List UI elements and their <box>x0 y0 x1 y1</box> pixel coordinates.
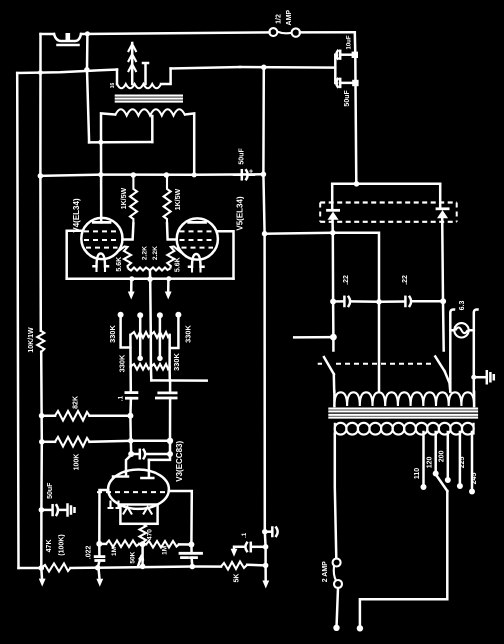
rectifier box (dashed) <box>320 201 457 203</box>
svg-text:200: 200 <box>438 450 445 462</box>
wire: network left side vertical <box>129 335 132 367</box>
svg-text:5.6K: 5.6K <box>116 257 123 272</box>
node: V5 anode crossing <box>192 172 197 177</box>
T1 secondary output arrow (to speaker line) <box>131 43 134 84</box>
capacitor C2 plate straight <box>339 79 342 87</box>
svg-text:50uF: 50uF <box>344 90 351 107</box>
wire: row2 right end down to jog <box>168 367 171 381</box>
capacitor C1 10uF (reservoir) lead right <box>342 53 355 56</box>
tube V5 EL34 envelope <box>177 218 218 259</box>
wire: C8 to bottom bus <box>98 561 100 568</box>
node: rail bottom junction <box>39 565 45 571</box>
capacitor C1 plate curved <box>336 51 338 59</box>
resistor R3 5.6K (V4 cathode) zigzag <box>117 247 132 269</box>
V3 cathode chevron right <box>143 507 152 515</box>
svg-text:50uF: 50uF <box>239 148 246 165</box>
arrow: rail continues down (off-page) <box>40 568 43 579</box>
capacitor C5 .1 (right coupling) plates <box>159 391 176 394</box>
V3 cathode chevron left <box>123 507 132 515</box>
T2 tap lead 120 <box>434 432 437 471</box>
resistor R9 330K (row2 left) <box>131 364 151 370</box>
wire: D2 down to HV switch 2 <box>442 218 444 350</box>
V3 internal shield (dashed) <box>97 491 168 493</box>
svg-text:10uF: 10uF <box>346 35 352 49</box>
stub: row1 hanging dot left <box>139 335 142 356</box>
speaker LS1 coil tab <box>66 33 71 41</box>
T2 tap lead 245 (right end) <box>471 432 474 489</box>
node: B+ junctions <box>262 231 268 237</box>
svg-text:1M: 1M <box>111 547 118 556</box>
node: screen rail to B+ vertical <box>261 172 267 178</box>
resistor R17 1M zigzag <box>143 543 146 546</box>
svg-text:50K: 50K <box>129 551 136 563</box>
node: 1K screen resistor right junction <box>164 172 170 178</box>
node: heater ground junction <box>471 375 476 380</box>
wire: CT link horizontal to OPT center tap <box>89 141 152 144</box>
wire: OPT right rail from top wire down to CT link <box>87 34 89 143</box>
node: top rail / right OPT rail junction <box>85 31 90 36</box>
V3 heater pins <box>108 501 122 509</box>
wire: stub at switch level <box>294 336 333 339</box>
node: left 1M junction <box>96 541 102 547</box>
node: rail junction at 50uF bypass <box>39 507 45 513</box>
V5 grid rows (dashed) <box>180 230 216 232</box>
svg-text:16: 16 <box>110 83 116 89</box>
wire: R2 to V5 screen grid <box>167 223 177 239</box>
arrow: bus feedback stub down (off-page) <box>99 568 100 579</box>
V3 right grid bar and stem <box>141 460 153 478</box>
node: rail start dot <box>38 173 44 179</box>
V5 anode plate bar <box>189 221 206 224</box>
speaker LS1 magnet bar <box>58 44 79 47</box>
wire: V5 grid out right and down <box>218 231 233 278</box>
wire: fuse to top-right corner <box>300 31 355 34</box>
T1 output arrow chevrons <box>128 44 136 72</box>
svg-text:100K: 100K <box>74 454 81 471</box>
T2 tap lead 200 <box>447 432 450 477</box>
capacitor C9 (plate to bus) plates <box>180 552 202 555</box>
wire: left rail below R11 <box>40 352 43 568</box>
T1 primary right lead to V5 anode line <box>185 113 194 174</box>
capacitor C4 .1 (left coupling) plates <box>126 391 137 394</box>
svg-text:.22: .22 <box>402 275 409 285</box>
wire: feedback line from outer rail to OPT secondary left <box>17 70 117 74</box>
svg-text:+: + <box>249 169 253 176</box>
wire: screen supply rail (B+) across amp <box>40 174 263 176</box>
wire: V4 grid out left and down <box>67 231 82 279</box>
T1 core laminations <box>115 96 183 102</box>
node: V3 right grid junction <box>167 451 173 457</box>
wire: selector down and across to mains terminal <box>360 491 447 626</box>
svg-text:47K: 47K <box>46 539 53 552</box>
wire: R1 to V4 screen grid <box>122 223 133 239</box>
wire: bottom bus <box>98 567 222 568</box>
svg-text:1M: 1M <box>161 546 168 555</box>
svg-text:1K/5W: 1K/5W <box>175 189 182 211</box>
T1 primary winding arcs <box>115 109 185 115</box>
T1 secondary tap stub <box>143 63 148 84</box>
resistor R1 1K/5W (V4 screen) zigzag <box>130 176 137 223</box>
node: 1K screen resistor left junction <box>131 172 137 178</box>
fuse F1 terminal circle right <box>292 28 300 36</box>
svg-text:330K: 330K <box>172 353 181 371</box>
wire: jog down to coupling cap C5 <box>169 381 172 393</box>
wire: secondary right lead to screen-feed rail <box>171 67 240 69</box>
capacitor C10 stub on B+ <box>265 530 271 533</box>
resistor R4 5.6K (V5 cathode) zigzag <box>167 247 182 269</box>
switch S1a blade (HT) <box>324 357 334 374</box>
svg-text:10K/1W: 10K/1W <box>28 327 35 353</box>
svg-text:(100K): (100K) <box>58 534 65 555</box>
resistor R16 1M zigzag <box>99 543 106 546</box>
V5 heater legs <box>192 267 201 273</box>
svg-text:V5(EL34): V5(EL34) <box>236 196 245 231</box>
resistor R2 1K/5W (V5 screen) zigzag <box>164 176 171 223</box>
capacitor C2 plate curved <box>336 79 338 87</box>
wire: jog horizontal with stub end <box>151 379 206 382</box>
wire: D1 down to HV switch <box>331 220 334 351</box>
svg-text:225: 225 <box>459 456 466 468</box>
resistor R5 2.2K (left bias) small zigzag <box>128 268 150 271</box>
node: splitter output terminal dots <box>118 312 124 318</box>
wire: row2 left down to coupling cap C4 <box>129 367 132 392</box>
node: V4 anode crossing <box>98 172 103 177</box>
svg-text:120: 120 <box>426 456 433 468</box>
arrow: B+ line end (off-page) <box>262 581 269 589</box>
wire: C5 down to V3 right grid junctions <box>169 398 172 454</box>
T2 secondary end leads <box>334 392 474 407</box>
svg-text:330K: 330K <box>117 354 126 372</box>
capacitor C2 50uF (filter) lead right <box>342 82 356 85</box>
svg-text:.1: .1 <box>242 532 248 538</box>
pilot lamp LP1 <box>454 323 468 337</box>
wire: HT to rectifier bus <box>332 183 440 186</box>
capacitor C8 .022 plates <box>95 555 104 558</box>
fuse F1 terminal circle left <box>269 28 277 36</box>
node: 100K end junction <box>167 438 173 444</box>
wire: outer rail bottom corner to 47K <box>19 567 42 570</box>
node: bus junctions <box>95 565 101 571</box>
node: right 1M junction <box>188 542 194 548</box>
diode D2 (metal rectifier right) <box>437 207 448 210</box>
V3 left grid bar and stem <box>113 455 131 477</box>
node: CT junction on .22 rail <box>376 299 382 305</box>
svg-text:2 AMP: 2 AMP <box>322 561 329 582</box>
wire: RF cap rail left segment <box>333 300 342 303</box>
resistor R11 10K/1W (in left rail) zigzag <box>37 331 44 352</box>
fuse F1 link <box>277 32 292 34</box>
svg-text:110: 110 <box>414 468 421 479</box>
capacitor C11 .1 with arrow feed <box>253 546 266 549</box>
node: rail/feedback wire crossing <box>38 70 43 75</box>
T2 primary left lead down to mains fuse <box>335 434 337 558</box>
resistor R7 330K (row1 left) <box>130 332 150 338</box>
V5 cathode/heater arch <box>189 254 204 267</box>
node: mains terminal right <box>357 625 363 631</box>
capacitor C13 .22 plates <box>404 297 407 306</box>
svg-text:1K/5W: 1K/5W <box>121 188 128 210</box>
wire: outer-right terminal to network <box>170 315 179 348</box>
T1 primary center tap <box>151 116 154 142</box>
wire: right diode top lead <box>439 184 442 209</box>
wire: grid-return bus <box>67 277 234 280</box>
output transformer T1 secondary arches <box>117 84 161 88</box>
node: 100K mid junction <box>128 438 134 444</box>
resistor R13 100K zigzag <box>42 441 55 444</box>
node: rail junction at 100K <box>39 439 45 445</box>
V4 grid rows (dashed) <box>84 230 120 232</box>
T1 secondary left lead <box>116 70 119 85</box>
arrow: drive to V4 grid (off-page) <box>130 279 133 293</box>
resistor R8 330K (row1 right) <box>151 332 170 338</box>
wire: common plate bus of C1/C2 <box>335 55 337 83</box>
wire: HT vertical down right side <box>355 32 357 184</box>
wire: V4 anode line down to tube <box>100 142 103 222</box>
tube V4 EL34 envelope <box>81 218 122 259</box>
wire: outer-left terminal to network <box>121 315 131 348</box>
svg-text:5.6K: 5.6K <box>174 257 181 272</box>
wire: splitter center vertical to jog <box>150 335 153 381</box>
node: anode line crossing on CT link <box>98 140 103 145</box>
svg-text:V4(EL34): V4(EL34) <box>72 198 81 233</box>
svg-text:.1: .1 <box>117 395 124 401</box>
wire: V3 right plate out and down <box>169 491 192 544</box>
arrow: drive to V5 grid (off-page) <box>167 279 170 293</box>
T1 secondary right lead <box>161 69 171 85</box>
pilot lamp LP1 heater risers with hooks <box>450 309 454 391</box>
V4 cathode/heater arch <box>94 254 109 267</box>
capacitor C3 50uF screen decoupler (in-line plates) <box>241 170 244 179</box>
svg-text:2.2K: 2.2K <box>141 246 148 260</box>
power transformer T2 secondary arches <box>334 392 474 406</box>
wire: C4 down to V3 grid junctions <box>129 398 132 454</box>
node: mains terminal left <box>333 625 339 631</box>
wire: V3 left plate out and down <box>99 490 108 544</box>
T2 tap lead 225 <box>459 432 462 483</box>
svg-text:.022: .022 <box>85 545 92 559</box>
wire: main B+ vertical <box>263 67 265 581</box>
V3 cathode box <box>120 505 157 524</box>
V4 anode plate bar <box>93 221 110 224</box>
wire: mid-left terminal to row1 <box>139 315 142 335</box>
wire: C9 into bus <box>190 545 193 567</box>
svg-text:82K: 82K <box>73 396 80 409</box>
svg-text:470: 470 <box>147 529 154 540</box>
node: junction OPT rail / feedback wire <box>84 67 90 73</box>
svg-text:V3(ECC83): V3(ECC83) <box>175 441 184 482</box>
wire: 50K wiper arrow <box>138 556 142 566</box>
svg-text:AMP: AMP <box>286 10 293 26</box>
switch linkage (dashed) <box>318 363 432 365</box>
node: cap C1 junction on HT vertical <box>352 52 358 58</box>
ground: heater chassis ground <box>474 376 486 379</box>
speaker LS1 (cone cup) <box>54 34 81 41</box>
resistor R12 82K zigzag <box>42 414 55 417</box>
switch S1b blade (HT) <box>435 357 444 372</box>
switch S2 mains selector blade <box>437 476 448 492</box>
wire: network right side vertical <box>168 335 171 367</box>
svg-text:245: 245 <box>471 473 478 485</box>
node: bus junctions <box>129 276 134 281</box>
svg-text:330K: 330K <box>108 325 117 343</box>
capacitor C6 50uF (rail bypass) <box>41 509 50 512</box>
stub: row1 hanging dot right <box>159 335 162 356</box>
svg-text:6.3: 6.3 <box>459 301 466 311</box>
resistor R15 470 (V3 cathode) zigzag <box>140 524 147 545</box>
svg-text:50uF: 50uF <box>47 482 54 499</box>
fuse F2 link <box>334 566 336 581</box>
wire: left diode top lead <box>331 184 334 210</box>
node: D1 line junctions <box>330 230 336 236</box>
T1 primary left lead to V4 anode line <box>101 113 115 142</box>
wire: C5 output jog into V3 right grid <box>149 454 170 460</box>
resistor R6 2.2K (right bias) small zigzag <box>150 268 170 271</box>
capacitor C12 .22 plates <box>343 297 346 306</box>
capacitor C7 (grid-grid) plates <box>131 453 138 456</box>
svg-text:1/2: 1/2 <box>276 14 283 24</box>
node: B+ tap junction on screen feed <box>261 65 267 71</box>
wire: B+ takeoff across to CT <box>265 233 379 392</box>
wire: screen rail feed into C1/C2 common <box>240 66 335 69</box>
T2 tap lead 110 <box>422 432 425 484</box>
wire: left vertical rail (outer) <box>17 73 18 568</box>
svg-text:2.2K: 2.2K <box>152 246 159 260</box>
V4 heater legs <box>97 266 106 272</box>
capacitor C1 plate straight <box>339 51 342 59</box>
svg-text:330K: 330K <box>183 325 192 343</box>
wire: bias center tap down through bus <box>149 270 152 335</box>
T2 core laminations <box>328 409 478 418</box>
tube V3 ECC83 envelope (ellipse) <box>108 470 169 509</box>
wire: top rail speaker to fuse <box>81 32 270 34</box>
node: cap C2 junction on HT vertical <box>352 80 358 86</box>
node: cathode/1M junction <box>140 541 146 547</box>
wire: V3 cathode to bottom bus <box>141 544 144 566</box>
diode D1 (metal rectifier left) <box>328 209 339 212</box>
svg-text:5K: 5K <box>234 574 241 583</box>
ground: chassis bars for C6 <box>68 505 75 516</box>
wire: mid-right terminal to row1 <box>159 315 162 335</box>
resistor R18 5K zigzag <box>221 562 247 570</box>
T2 primary loop winding <box>335 423 474 435</box>
svg-text:.22: .22 <box>343 275 350 285</box>
wire: F2 to mains terminal left <box>337 588 338 625</box>
node: rail junction at 82K <box>39 413 45 419</box>
wire: HT top rail left corner <box>41 33 55 36</box>
wire: main left rail x40 top corner <box>39 34 42 331</box>
fuse F2 2AMP terminal circles <box>333 559 341 567</box>
node: D2 line junction <box>440 298 446 304</box>
node: 82K to C4 line junction <box>127 413 133 419</box>
resistor R10 330K (row2 right) <box>151 364 170 370</box>
resistor R14 47K(100K) zigzag <box>41 564 70 572</box>
node: rectifier feed junction <box>354 181 360 187</box>
node: V3 left grid junction <box>128 451 134 457</box>
